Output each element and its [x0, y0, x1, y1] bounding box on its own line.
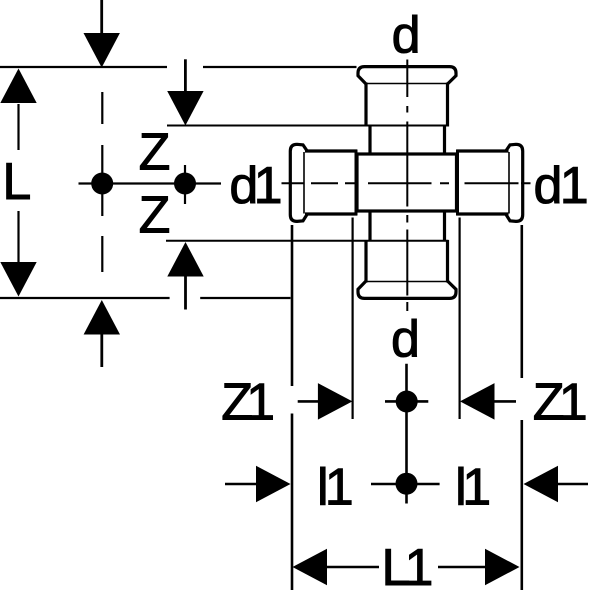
wire horizontal line through center dots y=183.5 [79, 182, 222, 184]
centerline dash-dot left axis x=102.3 [101, 92, 103, 272]
wire right fitting-end extension line x=521.8 [520, 225, 523, 590]
svg-text:d: d [391, 311, 420, 369]
centerline vertical axis of fitting x=407.3 [406, 60, 408, 312]
pipe left bead inner edge [303, 152, 305, 214]
centerline d column x=406.5 [405, 364, 408, 504]
pipe body center rectangle [357, 154, 457, 211]
wire l1 right arrow tail [558, 483, 588, 486]
svg-text:1: 1 [246, 374, 275, 432]
wire Z1 center tick [385, 400, 428, 403]
svg-text:L: L [2, 153, 31, 211]
pipe bottom bead inner edge [365, 281, 449, 283]
arrow Z upper pointing down at upper Z line [167, 91, 203, 126]
pipe right socket cylinder [457, 151, 509, 214]
pipe top press bead [358, 67, 456, 84]
wire Z lower arrow tail [184, 276, 187, 310]
wire vertical tick through Z dot [184, 165, 186, 204]
wire Z upper arrow tail [184, 59, 187, 92]
svg-text:Z: Z [139, 123, 171, 181]
wire left fitting-end extension line x=292 [291, 225, 294, 590]
wire L1 line right segment [438, 566, 485, 569]
svg-text:d: d [392, 6, 421, 64]
wire l1 center tick [371, 483, 440, 486]
wire Z lower extension line y=240.7 [166, 240, 449, 242]
node center dot for Z [174, 173, 196, 195]
svg-text:1: 1 [405, 539, 434, 597]
pipe right socket shoulder [456, 150, 459, 216]
wire Z1 left arrow tail [298, 400, 319, 403]
wire top vertical pointer line [100, 0, 103, 34]
node l1 center dot [396, 473, 418, 495]
node center dot left [91, 173, 113, 195]
pipe bottom socket cylinder [366, 240, 448, 283]
pipe top branch tube [370, 125, 445, 156]
wire bottom extension line y=298 [0, 297, 291, 299]
wire Z1 right extension line x=459.6 [459, 218, 461, 420]
pipe left socket shoulder [355, 150, 358, 216]
arrow Z1 right pointing left [460, 383, 495, 420]
arrow Z lower pointing up at lower Z line [167, 242, 203, 277]
wire Z upper extension line y=125.5 [167, 125, 449, 127]
arrow l1 right pointing left [524, 466, 559, 503]
pipe left press bead [290, 144, 307, 221]
wire Z1 right arrow tail [494, 400, 516, 403]
arrow L1 left pointing left [293, 549, 328, 586]
arrow L top pointing up [0, 69, 36, 104]
arrow bottom-center pointing up at bottom extension line [84, 300, 120, 335]
centerline horizontal axis of fitting y=183.3 [282, 182, 531, 184]
svg-text:1: 1 [325, 459, 354, 517]
svg-text:1: 1 [254, 157, 283, 215]
svg-text:Z: Z [139, 187, 171, 245]
pipe bottom branch tube [370, 210, 445, 242]
wire tail of bottom-center arrow [100, 334, 103, 367]
pipe bottom press bead [358, 281, 456, 298]
arrow l1 left pointing right [256, 466, 291, 503]
dimension L vertical line upper segment [17, 104, 19, 150]
pipe right bead inner edge [508, 152, 510, 214]
svg-text:1: 1 [560, 157, 589, 215]
pipe left socket cylinder [305, 151, 357, 214]
wire l1 left arrow tail [225, 483, 257, 486]
svg-text:1: 1 [462, 459, 491, 517]
arrow top-center pointing down at top extension line [84, 33, 120, 68]
node Z1 center dot [396, 391, 418, 413]
arrow L1 right pointing right [485, 549, 520, 586]
dimension L vertical line lower segment [17, 211, 19, 262]
pipe top bead inner edge [365, 83, 449, 85]
wire Z1 left extension line x=352.6 [352, 218, 354, 420]
svg-text:d: d [534, 157, 563, 215]
svg-text:1: 1 [559, 374, 588, 432]
pipe top socket cylinder [366, 83, 448, 127]
arrow L bottom pointing down [0, 262, 36, 297]
wire L1 line left segment [327, 566, 379, 569]
arrow Z1 left pointing right [318, 383, 353, 420]
pipe right press bead [506, 144, 523, 221]
wire top extension line y=67 [0, 66, 357, 68]
